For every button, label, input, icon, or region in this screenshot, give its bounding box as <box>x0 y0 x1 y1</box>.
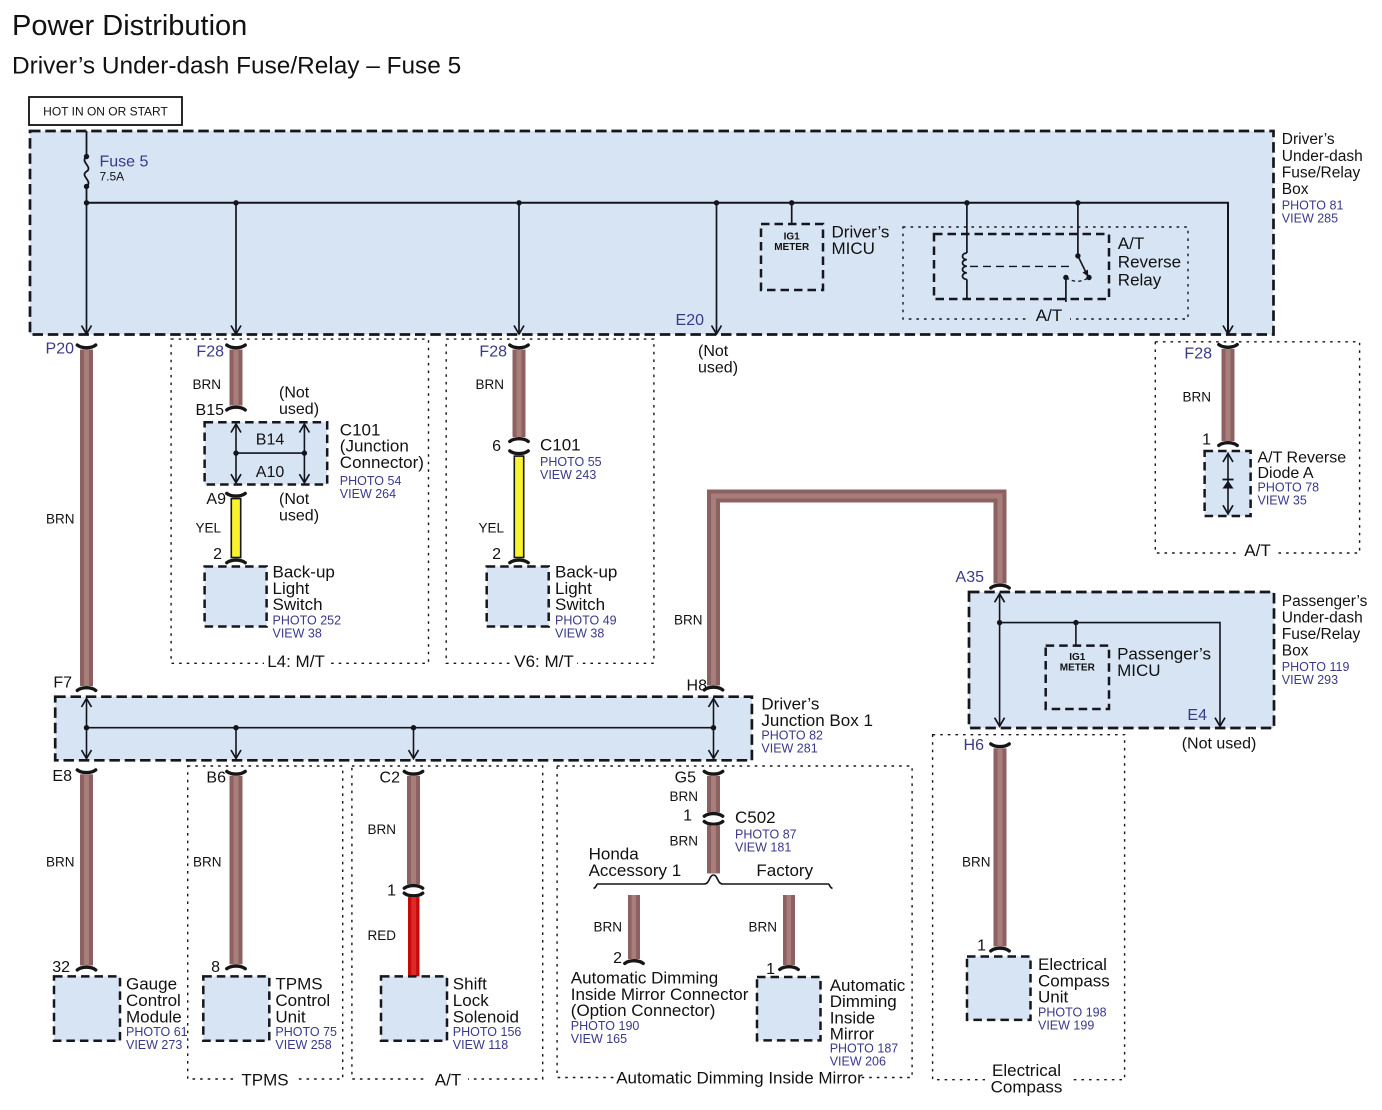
svg-text:PHOTO 54: PHOTO 54 <box>340 474 402 488</box>
svg-text:2: 2 <box>613 950 622 967</box>
label (Not used) B14 <box>279 385 319 418</box>
node pin 1 (mirror) <box>766 961 798 978</box>
svg-text:HOT IN ON OR START: HOT IN ON OR START <box>43 105 168 119</box>
micu U2 Passenger's MICU IG1 METER <box>1046 645 1211 710</box>
svg-text:Connector): Connector) <box>340 453 424 472</box>
label HOT IN ON OR START <box>29 97 182 125</box>
node E8 <box>52 768 95 785</box>
module TPMS Control Unit <box>203 975 337 1052</box>
svg-text:Driver’s Under-dash Fuse/Relay: Driver’s Under-dash Fuse/Relay – Fuse 5 <box>12 53 461 80</box>
node pin 2 (V6) <box>492 546 528 563</box>
svg-text:MICU: MICU <box>1117 661 1160 680</box>
node E20 <box>676 312 739 376</box>
wire drop F28 V6 <box>514 203 524 334</box>
node F28 (A/T) <box>1184 345 1237 363</box>
node F7 <box>53 675 95 692</box>
subtitle Driver's Under-dash Fuse/Relay - Fuse 5 <box>12 53 461 80</box>
svg-text:Module: Module <box>126 1007 182 1026</box>
svg-text:F7: F7 <box>53 675 72 692</box>
wire passenger box internal <box>995 594 1225 726</box>
svg-text:H6: H6 <box>964 737 985 754</box>
node F28 (V6) <box>479 344 528 361</box>
wire BRN E8 to 32 <box>46 774 93 965</box>
svg-text:VIEW 258: VIEW 258 <box>275 1038 331 1052</box>
svg-text:BRN: BRN <box>475 377 504 392</box>
svg-text:Accessory 1: Accessory 1 <box>589 861 682 880</box>
svg-text:BRN: BRN <box>192 377 221 392</box>
label Factory <box>756 861 813 880</box>
svg-text:VIEW 285: VIEW 285 <box>1282 212 1338 226</box>
label Driver's Under-dash Fuse/Relay Box <box>1282 131 1363 225</box>
svg-text:VIEW 206: VIEW 206 <box>830 1055 886 1069</box>
node H8 <box>687 678 723 695</box>
box Driver's Under-dash Fuse/Relay Box <box>30 131 1274 335</box>
svg-text:A35: A35 <box>956 569 985 586</box>
svg-text:BRN: BRN <box>193 855 222 870</box>
svg-text:1: 1 <box>1202 432 1211 449</box>
svg-text:VIEW 181: VIEW 181 <box>735 841 791 855</box>
svg-text:A/T: A/T <box>1036 306 1062 325</box>
micu U1 Driver's MICU IG1 METER <box>761 203 889 290</box>
wire drop F28 L4 <box>231 203 241 334</box>
module Automatic Dimming Inside Mirror <box>757 976 906 1069</box>
svg-text:PHOTO 55: PHOTO 55 <box>540 455 602 469</box>
svg-text:Under-dash: Under-dash <box>1282 148 1363 165</box>
connector C502 <box>683 808 797 855</box>
node bus junctions <box>84 200 1081 205</box>
svg-text:C2: C2 <box>380 770 401 787</box>
svg-text:F28: F28 <box>1184 346 1212 363</box>
svg-text:H8: H8 <box>687 678 708 695</box>
svg-text:VIEW 293: VIEW 293 <box>1282 673 1338 687</box>
solenoid Shift Lock Solenoid <box>381 975 521 1052</box>
svg-text:(Not: (Not <box>279 491 310 508</box>
dotted box TPMS <box>188 766 343 1090</box>
svg-text:PHOTO 78: PHOTO 78 <box>1258 481 1320 495</box>
svg-text:PHOTO 75: PHOTO 75 <box>275 1025 337 1039</box>
wire YEL A9 to 2 <box>195 498 241 559</box>
svg-text:BRN: BRN <box>962 855 991 870</box>
node pin 32 <box>52 959 95 976</box>
svg-text:VIEW 38: VIEW 38 <box>273 627 322 641</box>
wire drop P20 <box>82 203 92 334</box>
wire RED 1 to solenoid <box>367 897 419 976</box>
label Driver's Junction Box 1 <box>761 695 873 756</box>
node pin 2 (L4) <box>213 546 245 563</box>
label C101 Junction Connector <box>340 420 424 501</box>
svg-text:Power Distribution: Power Distribution <box>12 10 247 42</box>
svg-text:PHOTO 252: PHOTO 252 <box>273 614 342 628</box>
wire BRN C502 to split <box>669 825 720 873</box>
wire main bus <box>87 203 1229 334</box>
relay link dashed <box>970 265 1070 267</box>
relay coil <box>963 203 967 299</box>
svg-text:Driver’s: Driver’s <box>1282 131 1335 148</box>
svg-text:BRN: BRN <box>669 834 698 849</box>
svg-text:C502: C502 <box>735 808 776 827</box>
dotted box A/T (relay group) <box>903 227 1188 325</box>
switch Back-up Light Switch (L4) <box>205 563 341 641</box>
dotted box V6: M/T <box>446 339 654 671</box>
svg-text:1: 1 <box>387 883 396 900</box>
wire BRN G5 to C502 <box>669 776 720 813</box>
svg-text:Junction Box 1: Junction Box 1 <box>761 711 873 730</box>
dotted box A/T (diode group) <box>1155 342 1359 560</box>
svg-text:TPMS: TPMS <box>241 1071 288 1090</box>
svg-text:BRN: BRN <box>1182 390 1211 405</box>
label Passenger's Under-dash Fuse/Relay Box <box>1282 593 1368 687</box>
svg-text:8: 8 <box>211 959 220 976</box>
svg-text:PHOTO 198: PHOTO 198 <box>1038 1005 1107 1019</box>
wire BRN F28 to B15 <box>192 350 242 406</box>
wire BRN C2 to 1 <box>367 776 420 885</box>
dotted box Automatic Dimming Inside Mirror <box>557 766 912 1088</box>
svg-text:BRN: BRN <box>46 512 75 527</box>
relay K1 A/T Reverse Relay <box>934 234 1109 299</box>
dotted box Electrical Compass <box>933 735 1125 1098</box>
svg-text:VIEW 264: VIEW 264 <box>340 487 396 501</box>
svg-text:A/T: A/T <box>1118 234 1144 253</box>
wire YEL 6 to 2 <box>478 455 524 558</box>
node H6 <box>964 737 1010 754</box>
svg-text:C101: C101 <box>540 435 581 454</box>
svg-text:Compass: Compass <box>991 1078 1063 1097</box>
wire drop E20 <box>712 203 722 334</box>
svg-text:PHOTO 119: PHOTO 119 <box>1282 660 1350 674</box>
module Gauge Control Module <box>54 975 188 1052</box>
svg-text:(Not: (Not <box>698 343 729 360</box>
connector C101 junction connector box <box>205 422 328 484</box>
module Electrical Compass Unit <box>967 955 1110 1032</box>
svg-text:Fuse/Relay: Fuse/Relay <box>1282 626 1361 643</box>
svg-text:Passenger’s: Passenger’s <box>1282 593 1368 610</box>
svg-text:used): used) <box>279 508 319 525</box>
svg-text:A/T: A/T <box>1244 541 1270 560</box>
label Automatic Dimming Inside Mirror Connector <box>571 969 749 1046</box>
svg-text:32: 32 <box>52 959 70 976</box>
title Power Distribution <box>12 10 247 42</box>
svg-text:BRN: BRN <box>46 855 75 870</box>
svg-text:YEL: YEL <box>195 521 221 536</box>
node pin 8 <box>211 959 245 976</box>
svg-text:YEL: YEL <box>478 521 504 536</box>
box Passenger's Under-dash Fuse/Relay Box <box>969 592 1274 728</box>
node pin 2 (mirror connector) <box>613 950 643 967</box>
node pin 1 (diode) <box>1202 432 1237 449</box>
svg-text:VIEW 199: VIEW 199 <box>1038 1018 1094 1032</box>
svg-text:PHOTO 190: PHOTO 190 <box>571 1019 640 1033</box>
svg-text:P20: P20 <box>46 341 75 358</box>
svg-text:F28: F28 <box>196 344 224 361</box>
svg-text:7.5A: 7.5A <box>100 170 125 184</box>
svg-text:G5: G5 <box>675 770 696 787</box>
node pin 1 (compass) <box>977 938 1009 955</box>
svg-text:PHOTO 49: PHOTO 49 <box>555 614 617 628</box>
node E4 <box>1182 707 1257 753</box>
svg-text:B15: B15 <box>196 402 225 419</box>
svg-text:A/T: A/T <box>435 1071 461 1090</box>
svg-text:PHOTO 61: PHOTO 61 <box>126 1025 188 1039</box>
label (Not used) A10 <box>279 491 319 524</box>
svg-text:(Option Connector): (Option Connector) <box>571 1001 716 1020</box>
svg-text:6: 6 <box>492 438 501 455</box>
svg-text:VIEW 281: VIEW 281 <box>761 741 817 755</box>
node P20 <box>46 341 96 358</box>
svg-text:Box: Box <box>1282 643 1309 660</box>
svg-text:METER: METER <box>774 242 810 253</box>
svg-text:E8: E8 <box>52 768 72 785</box>
wire split bar <box>594 875 833 889</box>
svg-text:used): used) <box>279 401 319 418</box>
svg-text:A/T Reverse: A/T Reverse <box>1258 450 1347 467</box>
svg-text:IG1: IG1 <box>1069 652 1086 663</box>
wire drop F28 AT <box>1223 326 1233 335</box>
svg-text:VIEW 165: VIEW 165 <box>571 1032 627 1046</box>
svg-text:Unit: Unit <box>275 1007 306 1026</box>
relay switch <box>1063 203 1181 302</box>
svg-text:PHOTO 87: PHOTO 87 <box>735 828 797 842</box>
svg-text:V6: M/T: V6: M/T <box>514 652 574 671</box>
node pin 1 (solenoid) <box>387 883 423 900</box>
svg-text:A10: A10 <box>256 464 285 481</box>
node G5 <box>675 770 723 787</box>
svg-text:VIEW 38: VIEW 38 <box>555 627 604 641</box>
svg-text:VIEW 35: VIEW 35 <box>1258 494 1307 508</box>
svg-text:A9: A9 <box>206 491 226 508</box>
wire BRN H6 to 1 <box>962 748 1007 946</box>
svg-text:1: 1 <box>766 961 775 978</box>
node B6 <box>206 770 245 787</box>
svg-text:Reverse: Reverse <box>1118 252 1181 271</box>
node B15 <box>196 402 246 419</box>
connector C101 (V6) pin 6 <box>492 435 602 482</box>
dotted box A/T (solenoid group) <box>352 766 543 1090</box>
svg-text:RED: RED <box>367 928 396 943</box>
wire BRN accessory branch <box>593 895 640 959</box>
svg-text:Automatic Dimming Inside Mirro: Automatic Dimming Inside Mirror <box>616 1069 863 1088</box>
svg-text:E20: E20 <box>676 312 705 329</box>
node A35 <box>956 569 1010 588</box>
box Driver's Junction Box 1 <box>55 697 752 761</box>
svg-text:BRN: BRN <box>674 613 703 628</box>
svg-text:MICU: MICU <box>832 239 875 258</box>
svg-text:PHOTO 187: PHOTO 187 <box>830 1042 899 1056</box>
svg-text:Fuse/Relay: Fuse/Relay <box>1282 164 1361 181</box>
svg-text:E4: E4 <box>1187 707 1207 724</box>
svg-text:BRN: BRN <box>367 822 396 837</box>
wire BRN factory branch <box>748 895 795 965</box>
svg-text:VIEW 118: VIEW 118 <box>453 1038 508 1052</box>
svg-text:Unit: Unit <box>1038 988 1069 1007</box>
svg-text:used): used) <box>698 359 738 376</box>
label Honda Accessory 1 <box>589 845 682 880</box>
svg-text:(Not used): (Not used) <box>1182 736 1257 753</box>
wire BRN P20 to F7 <box>46 350 93 687</box>
svg-text:Under-dash: Under-dash <box>1282 609 1363 626</box>
dotted box L4: M/T <box>171 339 428 671</box>
svg-text:Switch: Switch <box>555 595 605 614</box>
svg-text:2: 2 <box>492 546 501 563</box>
wire fuse feed <box>86 131 88 156</box>
node F28 (L4) <box>196 344 245 361</box>
wire BRN F28 to diode <box>1182 349 1234 441</box>
node C2 <box>380 770 423 787</box>
svg-text:(Not: (Not <box>279 385 310 402</box>
svg-text:PHOTO 82: PHOTO 82 <box>761 728 823 742</box>
svg-text:Solenoid: Solenoid <box>453 1007 519 1026</box>
diode A/T Reverse Diode A <box>1205 450 1347 517</box>
svg-text:METER: METER <box>1060 663 1096 674</box>
svg-text:B14: B14 <box>256 431 285 448</box>
svg-text:VIEW 273: VIEW 273 <box>126 1038 182 1052</box>
svg-text:BRN: BRN <box>669 789 698 804</box>
svg-text:Factory: Factory <box>756 861 813 880</box>
switch Back-up Light Switch (V6) <box>487 563 618 641</box>
svg-text:VIEW 243: VIEW 243 <box>540 468 596 482</box>
fuse Fuse 5 7.5A <box>84 154 149 203</box>
svg-text:1: 1 <box>977 938 986 955</box>
wire BRN B6 to 8 <box>193 776 243 965</box>
svg-text:BRN: BRN <box>593 920 622 935</box>
svg-text:BRN: BRN <box>748 920 777 935</box>
wire BRN H8 to A35 <box>674 496 1000 686</box>
svg-text:1: 1 <box>683 808 692 825</box>
wire junction box internal bus <box>82 699 719 759</box>
wire BRN F28 to 6 <box>475 350 525 438</box>
svg-text:Switch: Switch <box>273 595 323 614</box>
node A9 <box>206 491 245 508</box>
svg-text:Box: Box <box>1282 181 1309 198</box>
svg-text:F28: F28 <box>479 344 507 361</box>
svg-text:Relay: Relay <box>1118 271 1162 290</box>
svg-text:L4: M/T: L4: M/T <box>267 652 325 671</box>
svg-text:Fuse 5: Fuse 5 <box>100 154 149 171</box>
svg-text:PHOTO 156: PHOTO 156 <box>453 1025 522 1039</box>
svg-text:PHOTO 81: PHOTO 81 <box>1282 199 1344 213</box>
svg-text:B6: B6 <box>206 770 226 787</box>
svg-text:2: 2 <box>213 546 222 563</box>
svg-text:IG1: IG1 <box>784 232 801 243</box>
